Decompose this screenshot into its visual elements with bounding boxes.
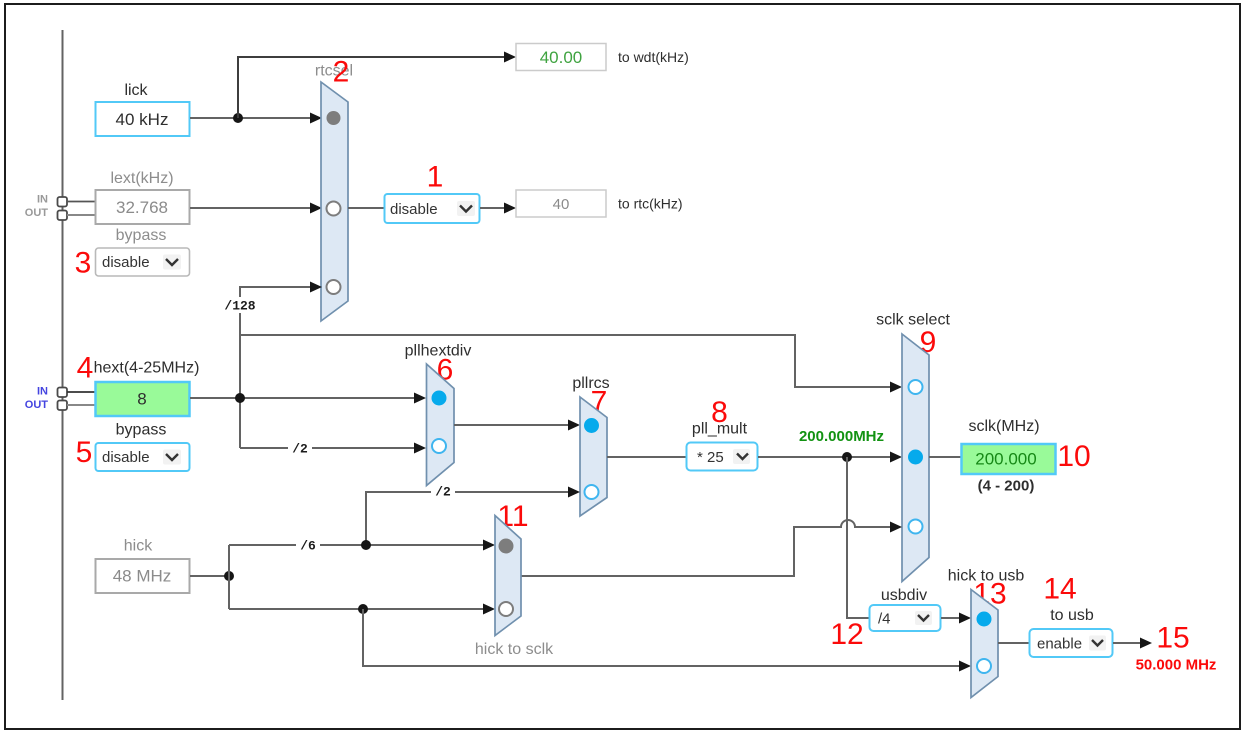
wire lick to wdt [238, 57, 505, 118]
wire dropdown1 to rtc box [480, 207, 505, 209]
mux hick to usb [971, 590, 998, 698]
svg-text:8: 8 [137, 390, 146, 409]
wire /6 to hick-to-sclk input1 [229, 544, 484, 546]
svg-text:to wdt(kHz): to wdt(kHz) [618, 49, 689, 65]
radio pllrcs input2 [585, 485, 599, 499]
svg-text:14: 14 [1043, 573, 1076, 606]
mux rtcsel [321, 82, 348, 321]
output box to rtc 40 [516, 190, 606, 217]
svg-text:200.000: 200.000 [975, 450, 1036, 469]
wire hext to sclk select input1 [240, 335, 891, 387]
svg-text:1: 1 [427, 161, 444, 194]
junction pll output node [842, 452, 852, 462]
wire lext OUT pin to box [67, 214, 95, 216]
svg-text:200.000MHz: 200.000MHz [799, 428, 884, 445]
svg-text:/4: /4 [878, 611, 891, 628]
dropdown 14 to usb enable [1030, 629, 1113, 657]
svg-text:/2: /2 [435, 485, 451, 500]
wire lext IN pin to box [67, 201, 95, 203]
svg-text:12: 12 [830, 618, 863, 651]
svg-text:pll_mult: pll_mult [692, 421, 748, 438]
left bus line [62, 30, 64, 700]
svg-text:hick to sclk: hick to sclk [475, 641, 554, 658]
svg-text:disable: disable [390, 201, 438, 218]
junction /6 node [361, 540, 371, 550]
label /6 [296, 538, 320, 552]
svg-text:bypass: bypass [116, 227, 167, 244]
wire hick-to-usb out to dropdown [998, 642, 1029, 644]
wire sclk select out to sclk box [929, 456, 961, 458]
wire hext out to pllhextdiv input1 [190, 397, 415, 399]
wire hick out [190, 575, 229, 577]
wire hext IN pin to box [67, 391, 95, 393]
dropdown 12 usbdiv /4 [870, 605, 941, 631]
dropdown 3 lext bypass disable [96, 248, 190, 276]
dropdown 8 pll_mult * 25 [687, 443, 758, 471]
svg-text:50.000 MHz: 50.000 MHz [1136, 657, 1217, 674]
svg-text:hick: hick [124, 538, 153, 555]
svg-text:enable: enable [1037, 636, 1082, 653]
oscillator box hick 48 MHz [96, 559, 190, 593]
wire hick-to-sclk out to sclk select input3 with hop [521, 520, 891, 576]
wire lick to rtcsel input1 [190, 117, 311, 119]
pin OUT square hext [58, 401, 68, 411]
wire rtcsel to dropdown 1 [348, 207, 384, 209]
svg-text:disable: disable [102, 254, 150, 271]
svg-text:hext(4-25MHz): hext(4-25MHz) [94, 360, 200, 377]
svg-text:5: 5 [76, 436, 93, 469]
radio hick-to-usb input2 [977, 659, 991, 673]
wire to usb output arrow [1113, 642, 1141, 644]
svg-text:/128: /128 [224, 299, 255, 314]
svg-text:10: 10 [1057, 440, 1090, 473]
mux pllrcs [580, 397, 607, 516]
wire pll node down to usbdiv [847, 457, 869, 618]
radio pllhextdiv input2 [432, 439, 446, 453]
wire pllrcs out to pll_mult [607, 456, 686, 458]
svg-text:lext(kHz): lext(kHz) [110, 170, 173, 187]
radio rtcsel input3 [327, 280, 341, 294]
dropdown 5 hext bypass disable [96, 443, 190, 471]
wire usbdiv to hick-to-usb input1 [941, 617, 960, 619]
pin OUT square lext [58, 211, 68, 221]
svg-text:to usb: to usb [1050, 607, 1094, 624]
wire hext OUT pin to box [67, 404, 95, 406]
oscillator box hext 8 [96, 382, 190, 416]
radio pllhextdiv input1 selected blue [432, 391, 447, 406]
radio sclk input2 selected blue [908, 450, 923, 465]
svg-text:/6: /6 [300, 539, 316, 554]
output box to wdt 40.00 [516, 44, 606, 71]
radio sclk input3 [909, 520, 923, 534]
oscillator box lext 32.768 [96, 190, 190, 224]
svg-text:to rtc(kHz): to rtc(kHz) [618, 196, 683, 212]
svg-text:OUT: OUT [25, 207, 49, 219]
wire hick to hick-to-usb input2 [363, 609, 960, 666]
svg-text:OUT: OUT [25, 399, 49, 411]
svg-text:usbdiv: usbdiv [881, 587, 927, 604]
label /128 [224, 297, 258, 313]
radio hick-to-usb input1 selected blue [977, 612, 992, 627]
label /2 pllrcs [431, 484, 455, 498]
svg-text:bypass: bypass [116, 422, 167, 439]
junction hext node [235, 393, 245, 403]
dropdown 1 rtc disable [385, 194, 480, 223]
label /2 pllhextdiv [288, 441, 312, 455]
svg-text:disable: disable [102, 449, 150, 466]
radio hick-to-sclk input1 selected gray [499, 539, 514, 554]
pin IN square lext [58, 197, 68, 207]
oscillator box lick 40 kHz [96, 102, 190, 136]
mux hick to sclk [495, 516, 521, 636]
junction hick usb node [358, 604, 368, 614]
svg-text:(4 - 200): (4 - 200) [978, 478, 1035, 495]
wire pllhextdiv out to pllrcs input1 [454, 424, 569, 426]
svg-text:3: 3 [75, 247, 92, 280]
wire /2 to pllhextdiv input2 [240, 447, 415, 449]
svg-text:/2: /2 [292, 442, 308, 457]
svg-text:40 kHz: 40 kHz [116, 110, 169, 129]
svg-text:40.00: 40.00 [540, 48, 583, 67]
mux pllhextdiv [427, 364, 455, 486]
wire /2 to pllrcs input2 [366, 492, 569, 545]
svg-text:32.768: 32.768 [116, 198, 168, 217]
junction lick node [233, 113, 243, 123]
wire net /128 vertical [240, 287, 311, 448]
svg-text:IN: IN [37, 386, 48, 398]
wire hick direct to hick-to-sclk input2 [229, 608, 484, 610]
radio pllrcs input1 selected blue [584, 418, 599, 433]
svg-text:IN: IN [37, 194, 48, 206]
svg-text:15: 15 [1156, 622, 1189, 655]
svg-text:4: 4 [77, 352, 94, 385]
svg-text:lick: lick [124, 82, 148, 99]
junction hick node [224, 571, 234, 581]
svg-text:sclk select: sclk select [876, 312, 950, 329]
wire lext to rtcsel input2 [190, 207, 311, 209]
svg-text:sclk(MHz): sclk(MHz) [968, 418, 1039, 435]
wire hick branch vertical [228, 545, 230, 609]
wire pll_mult to sclk select input2 [758, 456, 891, 458]
svg-text:* 25: * 25 [697, 449, 724, 466]
radio hick-to-sclk input2 [499, 602, 513, 616]
output box sclk 200.000 [962, 444, 1056, 474]
svg-text:40: 40 [553, 196, 570, 213]
svg-text:48 MHz: 48 MHz [113, 567, 172, 586]
pin IN square hext [58, 388, 68, 398]
radio rtcsel input1 selected gray [327, 111, 341, 125]
radio rtcsel input2 [327, 202, 341, 216]
mux sclk select [902, 334, 929, 582]
radio sclk input1 [909, 380, 923, 394]
svg-text:2: 2 [333, 56, 350, 89]
